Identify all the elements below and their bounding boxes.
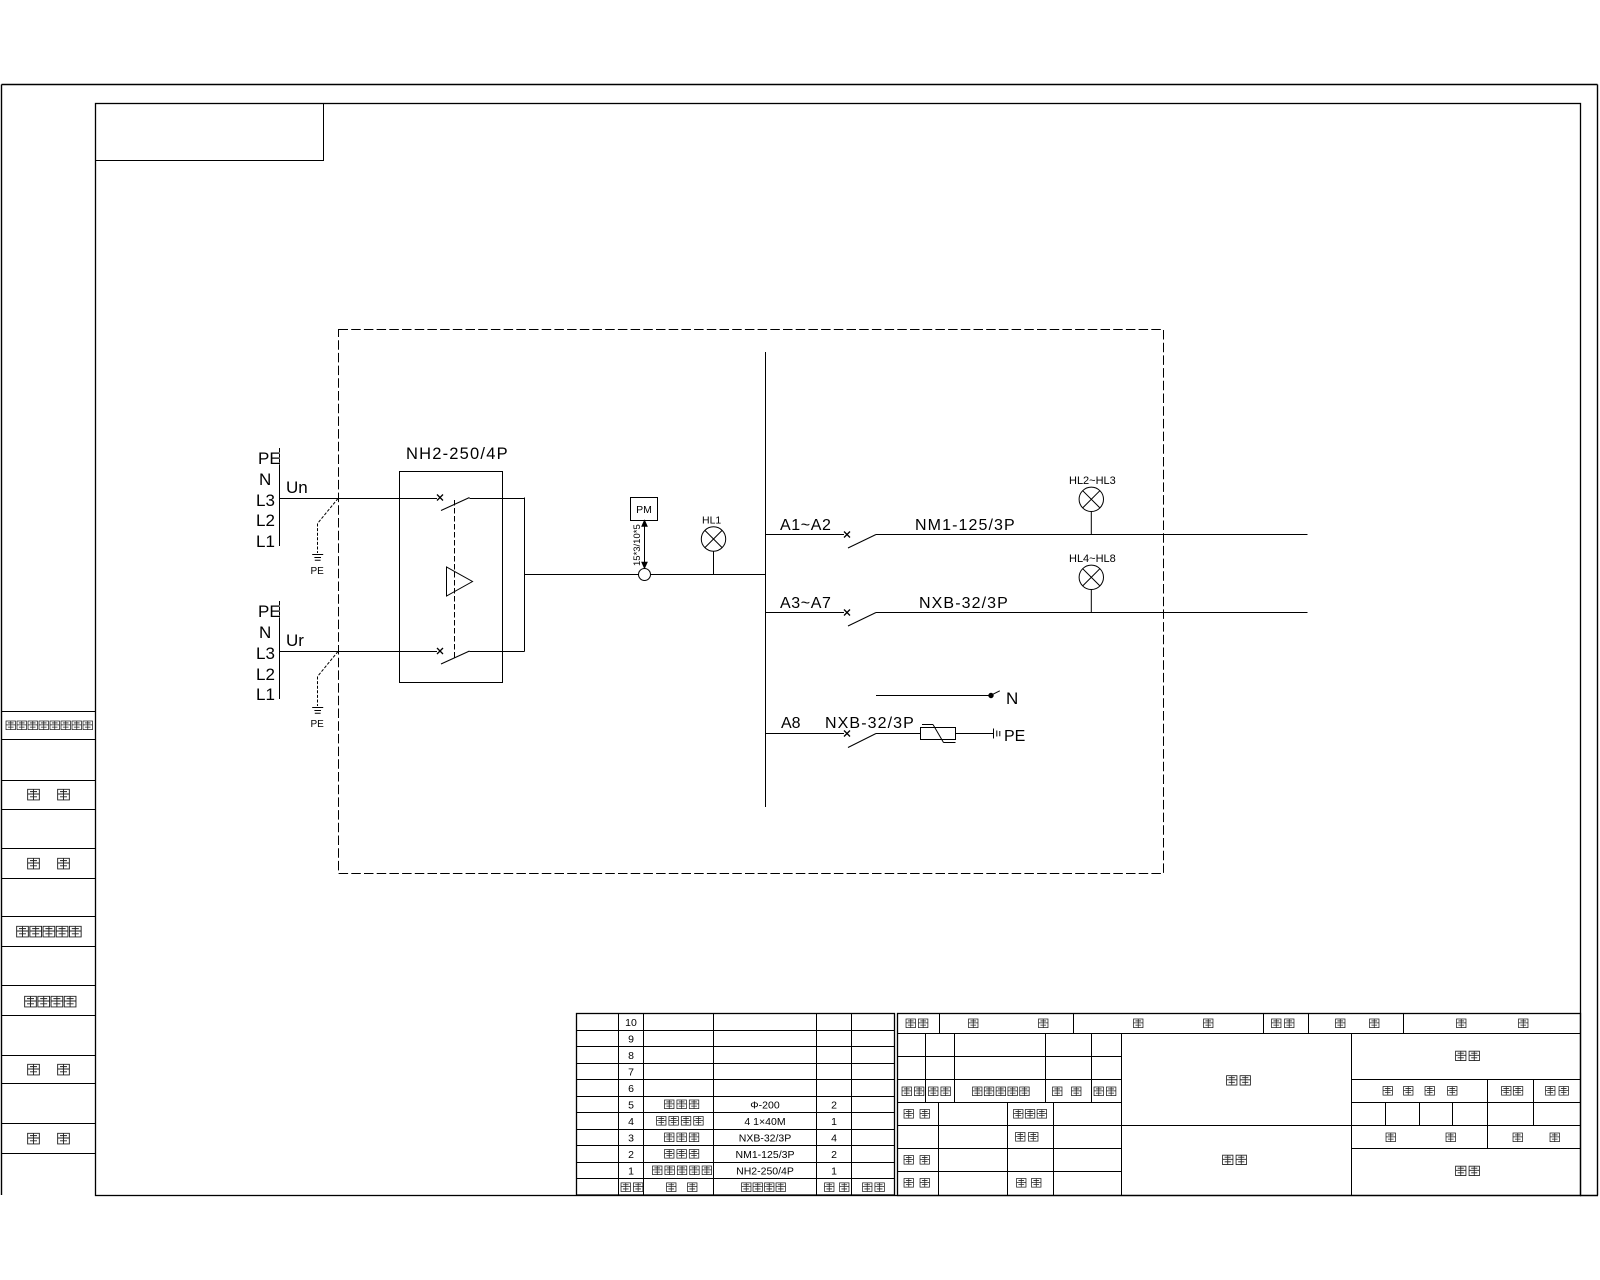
svg-text:Ur: Ur <box>286 631 304 650</box>
lamp HL1 <box>701 527 725 575</box>
wire N with terminal <box>876 691 1000 698</box>
BOM row 3 NXB breaker <box>665 1133 699 1142</box>
label jie(tong)yongjian dengji <box>6 721 92 730</box>
svg-text:L2: L2 <box>256 511 275 530</box>
BOM header row <box>621 1183 884 1192</box>
BOM row numbers <box>625 1017 637 1178</box>
svg-text:L1: L1 <box>256 685 275 704</box>
label PE N L3 L2 L1 (Ur feeder) <box>256 602 281 704</box>
title box top-left <box>96 104 324 161</box>
svg-text:L3: L3 <box>256 644 275 663</box>
svg-text:NM1-125/3P: NM1-125/3P <box>736 1149 795 1161</box>
svg-text:PE: PE <box>258 449 281 468</box>
lamp HL4~HL8 <box>1079 565 1103 612</box>
label qian zi <box>28 1064 70 1075</box>
label miao jiao <box>28 858 70 869</box>
svg-text:4 1×40M: 4 1×40M <box>744 1116 785 1128</box>
title cell mingcheng <box>1223 1155 1247 1164</box>
breaker QF2 branch A3~A7 <box>766 610 1308 627</box>
label jiuditu zonghao <box>17 926 82 937</box>
title cell cailiao <box>1227 1076 1251 1085</box>
panel enclosure dashed box <box>339 330 1164 874</box>
svg-text:PE: PE <box>311 566 325 577</box>
title row pizhun <box>1016 1133 1038 1142</box>
svg-text:10: 10 <box>625 1017 637 1029</box>
svg-text:NH2-250/4P: NH2-250/4P <box>736 1165 794 1177</box>
svg-text:HL4~HL8: HL4~HL8 <box>1069 553 1116 565</box>
svg-text:2: 2 <box>831 1149 837 1161</box>
svg-text:5: 5 <box>628 1099 634 1111</box>
svg-text:PM: PM <box>636 504 652 516</box>
svg-text:8: 8 <box>628 1050 634 1062</box>
breaker pole 1 <box>437 495 525 511</box>
breaker QF1 branch A1~A2 <box>766 532 1308 549</box>
BOM row 2 NM1 breaker <box>665 1150 699 1159</box>
svg-text:1: 1 <box>628 1165 634 1177</box>
svg-text:3: 3 <box>628 1132 634 1144</box>
svg-text:A3~A7: A3~A7 <box>780 595 831 612</box>
title revision row labels biaoji chushu genggaiwenjianhao qianzi riqi <box>902 1087 1116 1096</box>
svg-text:4: 4 <box>628 1116 634 1128</box>
ATS U1 box NH2-250/4P <box>400 472 503 683</box>
svg-text:N: N <box>259 470 271 489</box>
breaker QF3 branch A8 <box>766 731 921 748</box>
ATS actuator triangle <box>447 567 473 596</box>
svg-text:NH2-250/4P: NH2-250/4P <box>406 445 509 463</box>
svg-text:4: 4 <box>831 1132 837 1144</box>
svg-text:9: 9 <box>628 1033 634 1045</box>
svg-text:N: N <box>259 623 271 642</box>
node Un feeder terminal bar <box>279 448 281 546</box>
svg-text:NXB-32/3P: NXB-32/3P <box>739 1132 792 1144</box>
fuse disconnector F1 <box>921 725 994 743</box>
title block grid <box>898 1014 1581 1196</box>
title row gongyi riqi <box>904 1179 1041 1188</box>
meter PM box <box>631 498 658 521</box>
border frame inner <box>96 104 1581 1196</box>
wire collector <box>525 498 766 652</box>
svg-text:1: 1 <box>831 1165 837 1177</box>
svg-text:PE: PE <box>258 602 281 621</box>
title cell gongsi <box>1456 1166 1480 1175</box>
BOM row 5 lamp <box>665 1100 699 1109</box>
ground PE tap 1 <box>312 499 338 561</box>
BOM row 4 copper bar <box>657 1117 704 1126</box>
title row shenhe <box>904 1156 929 1165</box>
label PE N L3 L2 L1 (Un feeder) <box>256 449 281 551</box>
BOM row 1 ATS <box>653 1166 712 1175</box>
svg-text:HL2~HL3: HL2~HL3 <box>1069 475 1116 487</box>
title row sheji biaozhunhua <box>904 1110 1047 1119</box>
title cell tuyangbiaoji bili zhiliang <box>1383 1087 1568 1096</box>
svg-text:2: 2 <box>831 1099 837 1111</box>
label ri qi <box>28 1133 70 1144</box>
svg-text:L3: L3 <box>256 491 275 510</box>
svg-text:15*3/10*5: 15*3/10*5 <box>632 524 643 566</box>
wire PM to CT <box>642 521 647 569</box>
svg-text:N: N <box>1006 689 1018 708</box>
breaker pole 2 <box>437 648 525 664</box>
svg-text:NXB-32/3P: NXB-32/3P <box>825 715 915 732</box>
node Ur feeder terminal bar <box>279 601 281 699</box>
svg-text:7: 7 <box>628 1066 634 1078</box>
svg-text:NXB-32/3P: NXB-32/3P <box>919 595 1009 612</box>
ground PE tap 2 <box>312 652 338 714</box>
svg-text:1: 1 <box>831 1116 837 1128</box>
wire Ur <box>280 651 438 653</box>
svg-text:Φ-200: Φ-200 <box>750 1099 780 1111</box>
svg-text:A1~A2: A1~A2 <box>780 517 831 534</box>
svg-text:Un: Un <box>286 478 308 497</box>
BOM table grid <box>577 1014 895 1196</box>
svg-text:2: 2 <box>628 1149 634 1161</box>
label miao tu <box>28 789 70 800</box>
PE terminal <box>994 729 1000 739</box>
title cell gong zhang di zhang <box>1386 1133 1559 1142</box>
svg-text:NM1-125/3P: NM1-125/3P <box>915 517 1016 534</box>
label ditu zonghao <box>25 996 76 1007</box>
svg-text:L2: L2 <box>256 665 275 684</box>
title header labels xuhao daihao mingcheng shuliang cailiao beizhu <box>906 1019 1528 1028</box>
svg-text:L1: L1 <box>256 532 275 551</box>
svg-text:HL1: HL1 <box>702 515 721 527</box>
svg-text:A8: A8 <box>781 715 801 732</box>
ATS linkage dashed <box>454 500 456 658</box>
left margin row lines <box>2 712 96 1154</box>
lamp HL2~HL3 <box>1079 487 1103 534</box>
bus bar vertical <box>765 352 767 807</box>
wire Un <box>280 498 438 500</box>
title cell bianhao <box>1456 1051 1480 1060</box>
svg-text:6: 6 <box>628 1083 634 1095</box>
svg-text:PE: PE <box>1004 728 1025 745</box>
CT circle <box>639 569 651 581</box>
svg-text:PE: PE <box>311 719 325 730</box>
